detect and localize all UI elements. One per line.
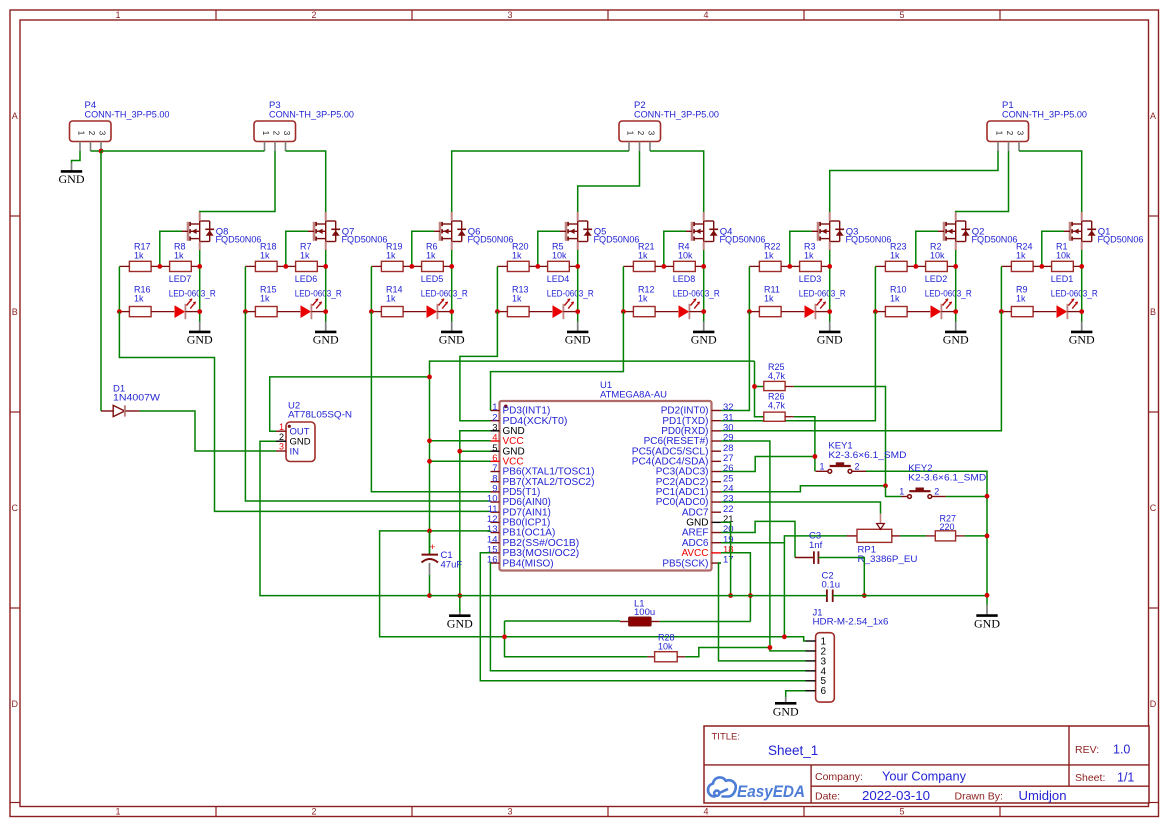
inductor L1 bbox=[620, 599, 660, 626]
wire bbox=[200, 151, 275, 212]
svg-text:A: A bbox=[12, 111, 18, 121]
svg-text:GND: GND bbox=[1069, 333, 1095, 347]
svg-text:1k: 1k bbox=[1016, 250, 1026, 260]
resistor R13 bbox=[497, 285, 552, 317]
wire bbox=[100, 151, 102, 411]
svg-text:1: 1 bbox=[820, 462, 825, 472]
resistor R21 bbox=[623, 242, 663, 272]
svg-text:K2-3.6×6.1_SMD: K2-3.6×6.1_SMD bbox=[828, 450, 906, 461]
IC U1 ATMEGA8A-AU bbox=[500, 380, 712, 571]
svg-text:4: 4 bbox=[703, 10, 708, 20]
junction bbox=[283, 264, 288, 269]
wire bbox=[452, 151, 629, 212]
junction bbox=[827, 309, 832, 314]
svg-text:16: 16 bbox=[487, 555, 498, 566]
svg-text:2: 2 bbox=[311, 807, 316, 817]
svg-text:GND: GND bbox=[439, 333, 465, 347]
svg-text:D: D bbox=[1150, 699, 1157, 709]
wire bbox=[286, 231, 308, 266]
svg-text:1k: 1k bbox=[764, 293, 774, 303]
transistor Q4 bbox=[686, 212, 766, 250]
ground bbox=[974, 605, 1000, 631]
junction bbox=[99, 149, 104, 154]
svg-text:FQD50N06: FQD50N06 bbox=[846, 235, 892, 246]
svg-text:LED-0603_R: LED-0603_R bbox=[673, 288, 720, 298]
svg-text:Date:: Date: bbox=[815, 791, 840, 803]
svg-text:4: 4 bbox=[703, 807, 708, 817]
key KEY2 bbox=[899, 463, 986, 498]
svg-text:1/1: 1/1 bbox=[1117, 771, 1134, 785]
junction bbox=[502, 634, 507, 639]
wire bbox=[505, 621, 648, 657]
wire bbox=[829, 250, 831, 322]
svg-text:2: 2 bbox=[87, 131, 96, 136]
svg-text:1.0: 1.0 bbox=[1113, 743, 1130, 757]
wire bbox=[660, 621, 751, 623]
resistor R5 bbox=[538, 242, 578, 272]
title block bbox=[704, 726, 1149, 803]
junction bbox=[999, 309, 1004, 314]
resistor R18 bbox=[245, 242, 285, 272]
ground bbox=[691, 322, 717, 347]
svg-text:2: 2 bbox=[636, 131, 645, 136]
svg-text:3: 3 bbox=[98, 131, 107, 136]
LED LED6 bbox=[295, 274, 342, 319]
svg-text:LED6: LED6 bbox=[295, 274, 318, 284]
resistor R7 bbox=[286, 242, 326, 272]
wire bbox=[721, 522, 731, 595]
resistor R24 bbox=[1001, 242, 1041, 272]
resistor R26 bbox=[764, 392, 794, 422]
junction bbox=[862, 593, 867, 598]
resistor R23 bbox=[875, 242, 915, 272]
junction bbox=[427, 593, 432, 598]
junction bbox=[813, 454, 818, 459]
wire bbox=[794, 387, 886, 486]
resistor R20 bbox=[497, 242, 537, 272]
svg-text:GND: GND bbox=[773, 705, 799, 719]
junction bbox=[449, 264, 454, 269]
svg-text:2: 2 bbox=[1005, 131, 1014, 136]
resistor R27 bbox=[926, 514, 965, 541]
svg-text:Drawn By:: Drawn By: bbox=[955, 791, 1003, 803]
junction bbox=[427, 438, 432, 443]
svg-text:LED7: LED7 bbox=[169, 274, 192, 284]
junction bbox=[728, 593, 733, 598]
svg-text:LED1: LED1 bbox=[1051, 274, 1074, 284]
wire bbox=[784, 536, 846, 637]
junction bbox=[827, 264, 832, 269]
wire bbox=[578, 151, 640, 212]
transistor Q1 bbox=[1064, 212, 1144, 250]
svg-text:100u: 100u bbox=[634, 607, 655, 618]
ground bbox=[1069, 322, 1095, 347]
wire bbox=[1081, 250, 1083, 322]
wire bbox=[916, 231, 938, 266]
connector P4 bbox=[70, 100, 170, 151]
svg-text:B: B bbox=[12, 307, 18, 317]
key KEY1 bbox=[816, 441, 907, 474]
wire bbox=[965, 535, 987, 537]
svg-text:PB5(SCK): PB5(SCK) bbox=[662, 558, 708, 569]
wire bbox=[460, 431, 491, 612]
junction bbox=[323, 309, 328, 314]
svg-text:ATMEGA8A-AU: ATMEGA8A-AU bbox=[600, 390, 667, 401]
wire bbox=[380, 531, 806, 641]
transistor Q6 bbox=[434, 212, 514, 250]
junction bbox=[752, 384, 757, 389]
ground bbox=[439, 322, 465, 347]
svg-text:GND: GND bbox=[313, 333, 339, 347]
svg-text:3: 3 bbox=[279, 442, 284, 452]
svg-text:TITLE:: TITLE: bbox=[712, 732, 741, 743]
svg-text:LED4: LED4 bbox=[547, 274, 570, 284]
wire bbox=[956, 151, 1009, 212]
svg-text:CONN-TH_3P-P5.00: CONN-TH_3P-P5.00 bbox=[269, 109, 354, 120]
connector P1 bbox=[987, 100, 1087, 151]
U1 pin names bbox=[503, 406, 709, 570]
svg-text:C: C bbox=[12, 503, 19, 513]
wire bbox=[577, 250, 579, 322]
junction bbox=[985, 534, 990, 539]
junction bbox=[157, 264, 162, 269]
wire bbox=[286, 151, 326, 212]
wire bbox=[270, 377, 430, 431]
wire bbox=[199, 250, 201, 322]
resistor R9 bbox=[1001, 285, 1056, 317]
wire bbox=[460, 450, 491, 452]
logo EasyEDA bbox=[708, 777, 805, 801]
resistor R8 bbox=[160, 242, 200, 272]
svg-text:4,7k: 4,7k bbox=[768, 401, 786, 411]
junction bbox=[535, 264, 540, 269]
junction bbox=[953, 264, 958, 269]
potentiometer RP1 bbox=[847, 514, 918, 566]
connector J1 bbox=[806, 608, 889, 703]
wire bbox=[325, 250, 327, 322]
svg-text:10k: 10k bbox=[658, 641, 673, 651]
wire bbox=[664, 231, 686, 266]
ground bbox=[565, 322, 591, 347]
junction bbox=[323, 264, 328, 269]
ground bbox=[817, 322, 843, 347]
ground bbox=[187, 322, 213, 347]
wire bbox=[886, 486, 902, 497]
wire bbox=[1042, 231, 1064, 266]
svg-text:1: 1 bbox=[261, 131, 270, 136]
svg-text:LED-0603_R: LED-0603_R bbox=[295, 288, 342, 298]
wire bbox=[451, 250, 453, 322]
svg-text:AT78L05SQ-N: AT78L05SQ-N bbox=[288, 410, 352, 421]
junction bbox=[953, 309, 958, 314]
svg-text:10k: 10k bbox=[1056, 250, 1071, 260]
junction bbox=[409, 264, 414, 269]
svg-text:LED3: LED3 bbox=[799, 274, 822, 284]
svg-text:2: 2 bbox=[934, 487, 939, 497]
svg-text:1k: 1k bbox=[638, 250, 648, 260]
junction bbox=[117, 309, 122, 314]
svg-text:1k: 1k bbox=[134, 293, 144, 303]
svg-text:CONN-TH_3P-P5.00: CONN-TH_3P-P5.00 bbox=[1002, 109, 1087, 120]
svg-text:LED5: LED5 bbox=[421, 274, 444, 284]
resistor R4 bbox=[664, 242, 704, 272]
svg-text:17: 17 bbox=[723, 555, 734, 566]
wire bbox=[370, 266, 372, 311]
wire bbox=[91, 150, 102, 152]
junction bbox=[661, 264, 666, 269]
wire bbox=[460, 312, 498, 421]
capacitor C1 bbox=[422, 531, 463, 575]
svg-text:1: 1 bbox=[77, 131, 86, 136]
svg-text:2: 2 bbox=[279, 432, 284, 442]
wire bbox=[830, 151, 998, 212]
wire bbox=[721, 312, 749, 411]
resistor R16 bbox=[119, 285, 174, 317]
svg-text:LED8: LED8 bbox=[673, 274, 696, 284]
wire bbox=[721, 441, 806, 651]
junction bbox=[748, 593, 753, 598]
junction bbox=[197, 264, 202, 269]
svg-text:10k: 10k bbox=[930, 250, 945, 260]
svg-text:1k: 1k bbox=[804, 250, 814, 260]
svg-text:4,7k: 4,7k bbox=[768, 371, 786, 381]
svg-text:FQD50N06: FQD50N06 bbox=[216, 235, 262, 246]
resistor R15 bbox=[245, 285, 300, 317]
svg-text:3: 3 bbox=[282, 131, 291, 136]
wire bbox=[118, 266, 120, 311]
resistor R19 bbox=[371, 242, 411, 272]
svg-text:B: B bbox=[1150, 307, 1156, 317]
ground bbox=[59, 163, 85, 187]
junction bbox=[701, 264, 706, 269]
svg-text:0.1u: 0.1u bbox=[822, 579, 841, 590]
svg-text:1k: 1k bbox=[512, 293, 522, 303]
junction bbox=[449, 309, 454, 314]
svg-text:CONN-TH_3P-P5.00: CONN-TH_3P-P5.00 bbox=[634, 109, 719, 120]
wire bbox=[430, 440, 491, 442]
resistor R17 bbox=[119, 242, 159, 272]
junction bbox=[985, 494, 990, 499]
LED LED8 bbox=[673, 274, 720, 319]
svg-text:1k: 1k bbox=[890, 250, 900, 260]
wire bbox=[245, 312, 490, 501]
LED LED2 bbox=[925, 274, 972, 319]
junction bbox=[621, 309, 626, 314]
svg-text:R_3386P_EU: R_3386P_EU bbox=[858, 554, 918, 565]
svg-text:REV:: REV: bbox=[1075, 744, 1099, 756]
LED LED1 bbox=[1051, 274, 1098, 319]
svg-text:Umidjon: Umidjon bbox=[1019, 789, 1067, 803]
resistor R1 bbox=[1042, 242, 1082, 272]
wire bbox=[650, 151, 704, 212]
wire bbox=[538, 231, 560, 266]
svg-text:C: C bbox=[1150, 503, 1157, 513]
svg-text:FQD50N06: FQD50N06 bbox=[342, 235, 388, 246]
junction bbox=[873, 309, 878, 314]
wire bbox=[72, 151, 81, 163]
svg-text:2022-03-10: 2022-03-10 bbox=[862, 789, 930, 803]
svg-text:1k: 1k bbox=[386, 250, 396, 260]
svg-text:FQD50N06: FQD50N06 bbox=[468, 235, 514, 246]
U1 pin leads bbox=[491, 411, 722, 564]
wire bbox=[721, 542, 784, 544]
wire bbox=[790, 231, 812, 266]
transistor Q3 bbox=[812, 212, 892, 250]
svg-text:FQD50N06: FQD50N06 bbox=[594, 235, 640, 246]
ground bbox=[313, 322, 339, 347]
svg-text:1k: 1k bbox=[260, 293, 270, 303]
svg-text:LED-0603_R: LED-0603_R bbox=[169, 288, 216, 298]
svg-text:1k: 1k bbox=[300, 250, 310, 260]
svg-text:+: + bbox=[430, 542, 436, 553]
diode D1 bbox=[101, 384, 160, 417]
junction bbox=[1079, 309, 1084, 314]
wire bbox=[101, 150, 265, 152]
wire bbox=[786, 691, 806, 697]
svg-text:LED-0603_R: LED-0603_R bbox=[799, 288, 846, 298]
svg-text:LED-0603_R: LED-0603_R bbox=[925, 288, 972, 298]
junction bbox=[427, 459, 432, 464]
svg-text:K2-3.6×6.1_SMD: K2-3.6×6.1_SMD bbox=[908, 473, 986, 484]
svg-text:1: 1 bbox=[899, 487, 904, 497]
resistor R22 bbox=[749, 242, 789, 272]
resistor R25 bbox=[764, 362, 794, 391]
junction bbox=[369, 309, 374, 314]
svg-text:LED2: LED2 bbox=[925, 274, 948, 284]
svg-text:1: 1 bbox=[626, 131, 635, 136]
wire bbox=[874, 266, 876, 311]
wire bbox=[755, 361, 764, 417]
wire bbox=[721, 521, 795, 557]
wire bbox=[429, 575, 431, 596]
svg-text:CONN-TH_3P-P5.00: CONN-TH_3P-P5.00 bbox=[85, 109, 170, 120]
capacitor C3 bbox=[795, 531, 823, 564]
svg-text:FQD50N06: FQD50N06 bbox=[1098, 235, 1144, 246]
junction bbox=[985, 593, 990, 598]
capacitor C2 bbox=[822, 571, 841, 603]
svg-text:1nf: 1nf bbox=[809, 540, 823, 551]
svg-text:Company:: Company: bbox=[815, 771, 863, 783]
junction bbox=[495, 309, 500, 314]
wire bbox=[818, 558, 864, 596]
wire bbox=[721, 457, 815, 472]
wire bbox=[703, 250, 705, 322]
wire bbox=[955, 250, 957, 322]
svg-text:Sheet:: Sheet: bbox=[1075, 772, 1105, 784]
svg-text:6: 6 bbox=[821, 686, 827, 697]
svg-text:Sheet_1: Sheet_1 bbox=[768, 743, 818, 758]
resistor R2 bbox=[916, 242, 956, 272]
LED LED3 bbox=[799, 274, 846, 319]
U1 pin numbers bbox=[487, 402, 734, 566]
svg-text:47uF: 47uF bbox=[441, 560, 463, 571]
svg-text:1: 1 bbox=[279, 422, 284, 432]
junction bbox=[768, 645, 773, 650]
junction bbox=[457, 593, 462, 598]
svg-text:LED-0603_R: LED-0603_R bbox=[547, 288, 594, 298]
junction bbox=[243, 309, 248, 314]
ground bbox=[773, 697, 799, 719]
wire bbox=[866, 471, 987, 604]
wire bbox=[622, 266, 624, 311]
svg-text:5: 5 bbox=[899, 10, 904, 20]
resistor R28 bbox=[647, 633, 685, 662]
svg-text:2: 2 bbox=[272, 131, 281, 136]
wire bbox=[430, 595, 827, 597]
wire bbox=[480, 553, 805, 681]
svg-text:FQD50N06: FQD50N06 bbox=[972, 235, 1018, 246]
svg-text:3: 3 bbox=[507, 807, 512, 817]
regulator U2 bbox=[276, 401, 352, 462]
svg-text:GND: GND bbox=[59, 172, 85, 186]
svg-text:1: 1 bbox=[115, 10, 120, 20]
wire bbox=[721, 312, 875, 421]
wire bbox=[430, 460, 491, 462]
wire bbox=[505, 620, 621, 622]
wire bbox=[794, 417, 815, 472]
svg-text:EasyEDA: EasyEDA bbox=[737, 783, 805, 801]
wire bbox=[1019, 151, 1082, 212]
svg-text:1k: 1k bbox=[890, 293, 900, 303]
junction bbox=[701, 309, 706, 314]
svg-text:1: 1 bbox=[115, 807, 120, 817]
wire bbox=[491, 312, 624, 411]
svg-text:1k: 1k bbox=[426, 250, 436, 260]
wire bbox=[1000, 266, 1002, 311]
svg-text:1k: 1k bbox=[174, 250, 184, 260]
svg-text:GND: GND bbox=[565, 333, 591, 347]
wire bbox=[721, 486, 886, 492]
wire bbox=[430, 361, 755, 554]
svg-text:3: 3 bbox=[647, 131, 656, 136]
resistor R6 bbox=[412, 242, 452, 272]
svg-text:1k: 1k bbox=[512, 250, 522, 260]
wire bbox=[833, 595, 987, 597]
svg-text:FQD50N06: FQD50N06 bbox=[720, 235, 766, 246]
resistor R3 bbox=[790, 242, 830, 272]
wire bbox=[721, 553, 750, 622]
svg-text:GND: GND bbox=[974, 617, 1000, 631]
junction bbox=[883, 483, 888, 488]
wire bbox=[140, 411, 277, 451]
wire bbox=[721, 502, 881, 514]
junction bbox=[575, 264, 580, 269]
svg-text:5: 5 bbox=[899, 807, 904, 817]
transistor Q2 bbox=[938, 212, 1018, 250]
svg-text:1k: 1k bbox=[134, 250, 144, 260]
svg-text:1: 1 bbox=[995, 131, 1004, 136]
svg-text:1k: 1k bbox=[764, 250, 774, 260]
resistor R12 bbox=[623, 285, 678, 317]
svg-text:GND: GND bbox=[691, 333, 717, 347]
wire bbox=[119, 312, 490, 512]
ground bbox=[943, 322, 969, 347]
wire bbox=[755, 386, 764, 388]
junction bbox=[427, 375, 432, 380]
svg-text:PB4(MISO): PB4(MISO) bbox=[503, 558, 554, 569]
wire bbox=[490, 563, 805, 671]
svg-text:1k: 1k bbox=[260, 250, 270, 260]
junction bbox=[575, 309, 580, 314]
svg-text:A: A bbox=[1150, 111, 1156, 121]
svg-text:IN: IN bbox=[290, 446, 300, 457]
junction bbox=[427, 529, 432, 534]
svg-text:1k: 1k bbox=[386, 293, 396, 303]
junction bbox=[197, 309, 202, 314]
wire bbox=[244, 266, 246, 311]
junction bbox=[457, 449, 462, 454]
wire bbox=[412, 231, 434, 266]
